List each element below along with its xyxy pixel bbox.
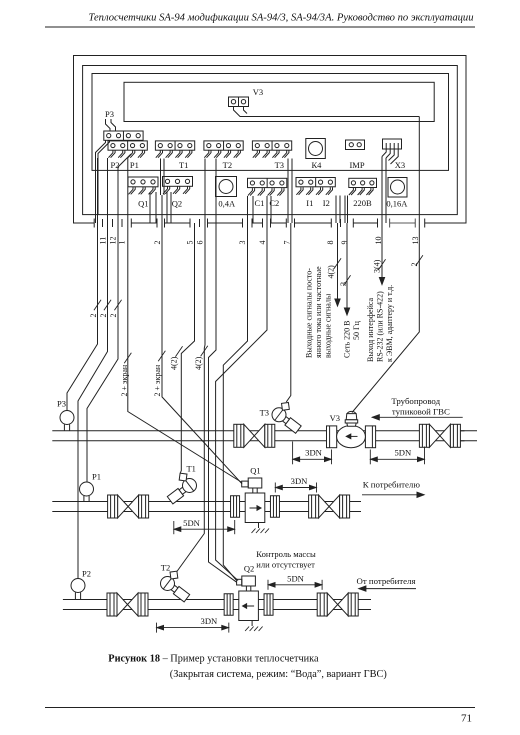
svg-text:5DN: 5DN	[183, 518, 201, 528]
svg-text:3DN: 3DN	[291, 476, 309, 486]
svg-text:71: 71	[461, 713, 472, 725]
svg-text:Q1: Q1	[138, 199, 148, 209]
svg-text:К4: К4	[311, 160, 322, 170]
svg-text:2: 2	[89, 314, 98, 318]
svg-text:5: 5	[185, 241, 194, 245]
svg-text:T3: T3	[275, 160, 284, 170]
svg-text:T2: T2	[223, 160, 232, 170]
svg-text:7: 7	[282, 241, 291, 245]
svg-text:T2: T2	[161, 563, 170, 573]
svg-text:9: 9	[340, 241, 349, 245]
svg-text:T1: T1	[186, 464, 195, 474]
svg-text:V3: V3	[253, 87, 263, 97]
svg-text:T3: T3	[260, 408, 269, 418]
svg-text:3(4): 3(4)	[373, 259, 382, 273]
svg-text:V3: V3	[330, 413, 340, 423]
svg-text:X3: X3	[395, 160, 405, 170]
svg-text:тупиковой ГВС: тупиковой ГВС	[392, 406, 450, 416]
svg-text:P3: P3	[57, 399, 66, 409]
svg-text:3DN: 3DN	[305, 448, 323, 458]
svg-text:2: 2	[99, 314, 108, 318]
svg-text:0,16А: 0,16А	[386, 199, 408, 209]
svg-text:I1: I1	[306, 198, 313, 208]
svg-text:Q2: Q2	[172, 199, 182, 209]
svg-text:4(2): 4(2)	[170, 356, 179, 370]
svg-text:4(2): 4(2)	[194, 356, 203, 370]
svg-text:(Закрытая система, режим: “Вод: (Закрытая система, режим: “Вода”, вариан…	[170, 669, 387, 680]
svg-text:или отсутствует: или отсутствует	[256, 559, 315, 569]
svg-text:Контроль массы: Контроль массы	[256, 549, 316, 559]
svg-text:2 + экран: 2 + экран	[120, 364, 129, 396]
svg-text:4: 4	[258, 241, 267, 245]
svg-text:Рисунок 18 – Пример установки: Рисунок 18 – Пример установки теплосчетч…	[108, 653, 319, 664]
svg-text:I2: I2	[323, 198, 330, 208]
svg-text:P3: P3	[105, 109, 114, 119]
svg-text:6: 6	[196, 241, 205, 245]
svg-text:Выходные сигналы посто-: Выходные сигналы посто-	[305, 268, 314, 358]
svg-text:0,4А: 0,4А	[218, 199, 236, 209]
svg-text:3: 3	[238, 241, 247, 245]
svg-text:1: 1	[118, 241, 127, 245]
svg-text:220В: 220В	[353, 198, 372, 208]
svg-text:T1: T1	[179, 160, 188, 170]
svg-text:5DN: 5DN	[394, 448, 412, 458]
svg-text:2 + экран: 2 + экран	[153, 364, 162, 396]
svg-text:4(2): 4(2)	[327, 265, 336, 279]
svg-text:8: 8	[326, 241, 335, 245]
svg-text:2: 2	[410, 263, 419, 267]
svg-text:P1: P1	[130, 160, 139, 170]
svg-text:Сеть 220 В: Сеть 220 В	[343, 321, 352, 358]
svg-text:Q1: Q1	[250, 466, 260, 476]
svg-text:C1: C1	[254, 198, 264, 208]
svg-text:3DN: 3DN	[201, 616, 219, 626]
svg-text:IMP: IMP	[349, 160, 364, 170]
svg-text:RS-232 (или RS-422): RS-232 (или RS-422)	[376, 291, 385, 362]
svg-text:Теплосчетчики SA-94 модификаци: Теплосчетчики SA-94 модификации SA-94/3,…	[88, 13, 473, 24]
svg-text:выходные сигналы: выходные сигналы	[324, 293, 333, 358]
svg-text:2: 2	[153, 241, 162, 245]
svg-text:5DN: 5DN	[287, 574, 305, 584]
svg-text:Q2: Q2	[244, 564, 254, 574]
svg-text:11: 11	[99, 237, 108, 245]
svg-text:13: 13	[411, 237, 420, 245]
svg-text:P2: P2	[82, 569, 91, 579]
svg-text:Выход интерфейса: Выход интерфейса	[366, 297, 375, 362]
svg-text:К потребителю: К потребителю	[363, 479, 421, 489]
svg-text:Трубопровод: Трубопровод	[391, 396, 440, 406]
svg-text:янного тока или частотные: янного тока или частотные	[314, 266, 323, 358]
svg-text:12: 12	[109, 237, 118, 245]
svg-text:к ЭВМ, адаптеру и т.д.: к ЭВМ, адаптеру и т.д.	[385, 285, 394, 362]
svg-text:3: 3	[339, 282, 348, 286]
svg-text:50 Гц: 50 Гц	[352, 320, 361, 340]
svg-text:От потребителя: От потребителя	[356, 576, 415, 586]
svg-text:2: 2	[109, 314, 118, 318]
svg-text:P1: P1	[92, 472, 101, 482]
